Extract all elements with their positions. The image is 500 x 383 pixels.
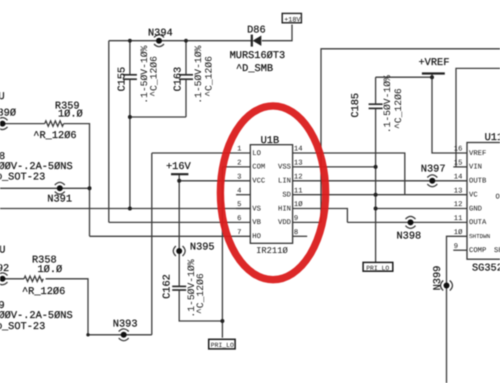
svg-text:12: 12 xyxy=(294,174,303,182)
svg-text:OUTA: OUTA xyxy=(469,219,487,227)
svg-text:SG352: SG352 xyxy=(472,263,500,275)
svg-text:C185: C185 xyxy=(350,93,362,118)
node N395 xyxy=(173,241,214,256)
wire C185 line xyxy=(375,108,377,262)
net flag PRI_LO right xyxy=(363,262,393,272)
wire U1B pin4 stub xyxy=(236,194,250,196)
svg-text:U: U xyxy=(0,244,5,256)
wire C162 bottom rail xyxy=(179,290,222,321)
svg-text:N395: N395 xyxy=(190,241,215,253)
svg-text:VDD: VDD xyxy=(278,219,291,227)
junction C162 rail tee xyxy=(220,319,224,323)
junction VCC tee xyxy=(177,179,181,183)
wire SG COMP stub xyxy=(453,249,467,251)
wire C155 C163 bottom rail xyxy=(130,116,186,118)
wire R358 right xyxy=(46,279,88,335)
wire N390 to R359 xyxy=(0,123,45,125)
wire N393 row xyxy=(88,334,152,336)
node N392 xyxy=(0,244,9,284)
svg-text:9: 9 xyxy=(454,243,458,251)
svg-text:+16V: +16V xyxy=(166,161,192,173)
svg-text:VB: VB xyxy=(252,219,261,227)
svg-text:14: 14 xyxy=(454,174,463,182)
wire LO row pin1 xyxy=(152,152,251,154)
svg-text:92: 92 xyxy=(0,263,9,275)
wire right VIN rail xyxy=(456,68,500,166)
node N398 xyxy=(397,216,422,242)
wire VREF pin16 xyxy=(432,74,467,154)
transistor lower part text xyxy=(0,300,73,333)
svg-text:SHTDWN: SHTDWN xyxy=(469,233,491,240)
wire HO row pin7 xyxy=(90,235,251,237)
resistor R359 xyxy=(33,101,82,142)
svg-text:1: 1 xyxy=(237,146,241,154)
resistor R358 xyxy=(22,255,65,298)
svg-text:6: 6 xyxy=(237,215,241,223)
capacitor C185 xyxy=(350,75,404,133)
annotation red ellipse xyxy=(220,106,325,280)
svg-text:C163: C163 xyxy=(173,67,185,92)
junction SD VC on C185 line xyxy=(374,193,378,197)
power +18V xyxy=(282,13,301,24)
wire GND row xyxy=(376,208,467,210)
svg-text:1Ø.Ø: 1Ø.Ø xyxy=(58,108,83,120)
svg-text:^C_12Ø6: ^C_12Ø6 xyxy=(203,56,214,97)
wire U1B pin5 stub xyxy=(236,208,250,210)
svg-text:9: 9 xyxy=(294,215,298,223)
wire LO drop xyxy=(151,153,153,335)
svg-text:39Ø: 39Ø xyxy=(0,107,16,119)
svg-text:D86: D86 xyxy=(247,25,266,37)
svg-text:N398: N398 xyxy=(397,231,422,243)
svg-text:14: 14 xyxy=(294,146,303,154)
svg-text:N393: N393 xyxy=(113,319,138,331)
svg-text:11: 11 xyxy=(454,215,463,223)
wire R359 right xyxy=(64,124,90,237)
svg-text:.1-5ØV-1Ø%: .1-5ØV-1Ø% xyxy=(193,45,204,103)
power +16V xyxy=(166,161,192,174)
wire LIN OUTB row xyxy=(293,180,467,182)
svg-text:U: U xyxy=(0,91,5,103)
svg-text:12: 12 xyxy=(454,201,463,209)
svg-text:U11: U11 xyxy=(485,132,500,144)
svg-text:11: 11 xyxy=(294,187,303,195)
svg-text:5: 5 xyxy=(237,201,241,209)
svg-text:+VREF: +VREF xyxy=(419,57,450,69)
svg-text:13: 13 xyxy=(294,160,303,168)
junction C163 top tee xyxy=(184,39,188,43)
capacitor C162 xyxy=(161,259,206,317)
svg-text:7: 7 xyxy=(237,229,241,237)
wire VIN stub xyxy=(453,166,467,168)
node N391 xyxy=(47,182,72,205)
svg-text:1Ø: 1Ø xyxy=(294,201,303,209)
node N394 xyxy=(148,28,173,47)
junction VSS on C185 line xyxy=(374,165,378,169)
node N399 xyxy=(432,266,452,291)
svg-text:N391: N391 xyxy=(47,194,72,206)
wire C155 top xyxy=(129,41,131,75)
svg-text:SD: SD xyxy=(282,192,291,200)
svg-text:_SOT-23: _SOT-23 xyxy=(1,321,45,333)
svg-text:LIN: LIN xyxy=(278,178,291,186)
wire VB row pin6 xyxy=(109,221,251,223)
svg-text:VSS: VSS xyxy=(278,164,291,172)
svg-text:HIN: HIN xyxy=(278,205,291,213)
svg-text:^D_SMB: ^D_SMB xyxy=(236,63,273,75)
svg-text:PRI_LO: PRI_LO xyxy=(366,265,389,272)
svg-text:C162: C162 xyxy=(161,274,173,299)
node N397 xyxy=(421,163,446,186)
wire C185 top stub xyxy=(375,77,377,104)
diode D86 xyxy=(230,25,286,75)
node N393 xyxy=(113,319,138,341)
svg-text:^R_12Ø6: ^R_12Ø6 xyxy=(33,130,76,142)
svg-text:^R_12Ø6: ^R_12Ø6 xyxy=(22,286,65,298)
svg-text:VREF: VREF xyxy=(469,150,486,158)
wire HIN row xyxy=(293,209,348,223)
svg-text:OUTB: OUTB xyxy=(469,178,487,186)
wire OUTA row xyxy=(347,221,467,223)
svg-text:U1B: U1B xyxy=(261,135,280,147)
wire U1B pin8 stub xyxy=(293,235,308,237)
op-amp U1B IR2110 xyxy=(237,135,303,256)
svg-text:+18V: +18V xyxy=(284,16,301,24)
wire C185 top to +VREF riser xyxy=(376,76,432,78)
svg-text:^C_12Ø6: ^C_12Ø6 xyxy=(149,56,160,97)
svg-text:C155: C155 xyxy=(116,67,128,92)
junction R358 corner xyxy=(86,333,89,336)
wire C163 top xyxy=(185,41,187,75)
wire N392 to R358 xyxy=(0,278,24,280)
wire D86 to +18V riser xyxy=(262,25,292,41)
svg-text:VCC: VCC xyxy=(252,178,266,186)
svg-text:2: 2 xyxy=(237,160,241,168)
wire top right +VDD rail xyxy=(321,49,500,223)
svg-text:^C_12Ø6: ^C_12Ø6 xyxy=(393,88,404,129)
svg-text:O: O xyxy=(496,194,500,202)
svg-text:LO: LO xyxy=(252,150,261,158)
wire +16V riser to C162 xyxy=(178,174,180,286)
svg-text:8: 8 xyxy=(294,229,298,237)
svg-text:13: 13 xyxy=(454,187,463,195)
wire N391 row xyxy=(0,187,90,189)
svg-text:1Ø.Ø: 1Ø.Ø xyxy=(38,264,63,276)
svg-text:15: 15 xyxy=(454,160,463,168)
junction VS tee xyxy=(128,207,132,211)
junction C155 rail tee xyxy=(128,115,132,119)
wire SHTDWN to N399 drop xyxy=(447,236,468,383)
power +VREF xyxy=(419,57,450,74)
svg-text:^C_12Ø6: ^C_12Ø6 xyxy=(195,273,206,314)
svg-text:N399: N399 xyxy=(432,266,444,291)
svg-text:16: 16 xyxy=(454,146,463,154)
node N390 xyxy=(0,91,16,130)
svg-text:COM: COM xyxy=(252,164,265,172)
wire C163 bottom xyxy=(185,79,187,117)
junction C185 top on VREF riser xyxy=(430,75,434,79)
svg-text:3: 3 xyxy=(237,174,241,182)
wire COM drop to PRI_LO xyxy=(221,167,223,338)
svg-text:ØØV-.2A-5ØNS: ØØV-.2A-5ØNS xyxy=(0,310,73,322)
wire COM pin2 xyxy=(222,166,250,168)
svg-text:N397: N397 xyxy=(421,163,446,175)
wire C155 left rail xyxy=(108,41,110,223)
svg-text:1Ø: 1Ø xyxy=(454,229,463,237)
svg-text:COMP: COMP xyxy=(469,247,486,255)
svg-text:GND: GND xyxy=(469,205,482,213)
junction C155 top tee xyxy=(128,39,132,43)
net flag PRI_LO left xyxy=(209,339,235,349)
svg-text:SE: SE xyxy=(494,247,500,255)
svg-text:N394: N394 xyxy=(148,28,173,40)
wire VDD pin9 U1B xyxy=(293,221,321,223)
wire VSS row to C185 line xyxy=(293,166,376,168)
svg-text:4: 4 xyxy=(237,187,241,195)
junction GND on C185 line xyxy=(374,207,378,211)
capacitor C155 xyxy=(116,45,159,103)
svg-text:IR211Ø: IR211Ø xyxy=(256,246,288,256)
svg-text:MURS16ØT3: MURS16ØT3 xyxy=(230,50,286,62)
svg-text:.1-5ØV-1Ø%: .1-5ØV-1Ø% xyxy=(382,75,393,133)
capacitor C163 xyxy=(173,45,215,103)
wire VS row pin5 xyxy=(0,208,250,210)
svg-text:VC: VC xyxy=(469,192,478,200)
wire U1B pin14 row xyxy=(293,153,405,195)
wire VCC row pin3 xyxy=(179,180,250,182)
svg-text:HO: HO xyxy=(252,233,261,241)
wire top rail N394 to D86 xyxy=(109,40,253,42)
wire SD VC row xyxy=(293,194,467,196)
svg-text:VIN: VIN xyxy=(469,164,482,172)
transistor upper part text xyxy=(0,151,73,183)
IC U19 SG352x xyxy=(454,132,500,275)
svg-text:PRI_LO: PRI_LO xyxy=(211,342,234,349)
wire C155 bottom drop to VS xyxy=(129,79,131,208)
svg-text:VS: VS xyxy=(252,205,261,213)
svg-text:_SOT-23: _SOT-23 xyxy=(1,172,45,184)
junction N391 tee xyxy=(88,186,92,190)
